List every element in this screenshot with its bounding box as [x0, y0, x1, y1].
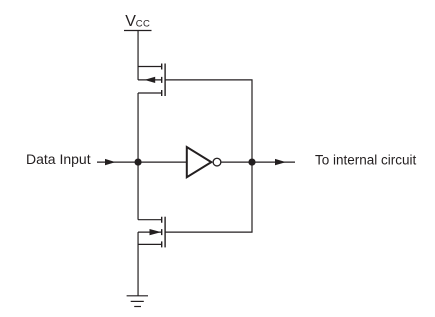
svg-text:To internal circuit: To internal circuit — [315, 153, 417, 168]
svg-text:Data Input: Data Input — [26, 151, 91, 167]
svg-text:CC: CC — [136, 19, 150, 30]
svg-text:V: V — [125, 13, 136, 30]
